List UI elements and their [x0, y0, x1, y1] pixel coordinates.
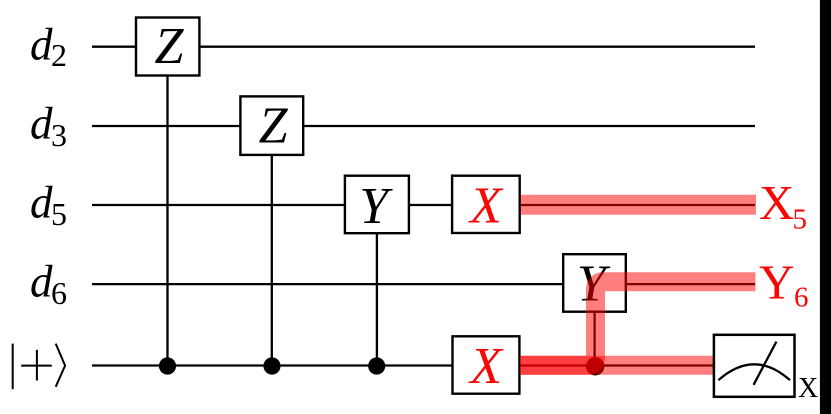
svg-text:2: 2 [51, 37, 67, 73]
svg-text:Y: Y [759, 254, 794, 309]
control dot 4 (under highlight) [586, 357, 604, 375]
svg-text:X: X [798, 373, 818, 404]
gate X1 box [452, 176, 520, 233]
highlight band elbow to Y6 [520, 282, 755, 366]
control wire from Y1 [376, 205, 378, 366]
wire d2 [92, 46, 755, 48]
svg-text:d: d [30, 178, 53, 228]
svg-text:d: d [30, 257, 53, 307]
control wire from Y2 [593, 284, 595, 365]
label |+> ket bar [12, 344, 14, 390]
svg-text:5: 5 [51, 196, 67, 232]
control dot 3 [368, 357, 385, 374]
svg-text:3: 3 [51, 117, 67, 153]
gate Y2 box [563, 254, 626, 312]
svg-text:X: X [759, 175, 794, 230]
svg-text:X: X [468, 338, 504, 395]
svg-text:X: X [468, 178, 504, 235]
gate X2 box [453, 336, 520, 393]
meter needle [754, 342, 777, 385]
right edge black bar [820, 0, 831, 414]
control wire from Z1 [166, 47, 168, 366]
svg-text:6: 6 [794, 282, 809, 314]
meter box [714, 335, 795, 397]
control dot 1 [159, 357, 176, 374]
wire d6 [92, 283, 755, 285]
svg-text:d: d [30, 20, 53, 70]
gate Z2 box [240, 96, 303, 154]
gate Y1 box [345, 176, 409, 234]
svg-text:Y: Y [359, 178, 393, 235]
svg-text:Z: Z [259, 98, 289, 155]
label |+> plus [21, 350, 52, 381]
wire d3 [92, 125, 755, 127]
highlight band d5 [521, 195, 757, 215]
svg-text:d: d [30, 99, 53, 149]
label |+> rangle [56, 344, 65, 387]
wire |+> [92, 364, 714, 366]
meter arc [718, 364, 790, 380]
control wire from Z2 [271, 126, 273, 366]
svg-text:5: 5 [793, 204, 808, 236]
svg-text:6: 6 [51, 275, 67, 311]
wire d5 [92, 204, 755, 206]
gate Z1 box [136, 18, 199, 76]
control dot 2 [263, 357, 280, 374]
svg-text:Z: Z [155, 18, 185, 75]
highlight band bottom to meter [520, 356, 714, 375]
